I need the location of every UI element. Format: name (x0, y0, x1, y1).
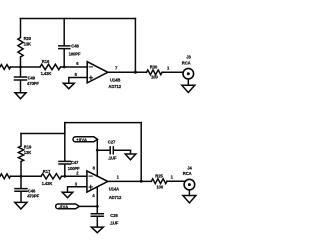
capacitor C48 label (69, 43, 81, 56)
wire R16 to op-amp inverting input (61, 66, 88, 68)
svg-text:100: 100 (156, 184, 163, 189)
op-amp U14A plus sign (89, 185, 92, 188)
node D junction dot (20, 175, 23, 178)
capacitor C46 (input to gnd) (15, 176, 27, 202)
svg-text:C49: C49 (28, 75, 36, 80)
resistor R17 body (41, 174, 62, 179)
wire non-inverting input (69, 78, 87, 84)
wire op-amp output (108, 71, 147, 73)
capacitor C27 label (108, 140, 117, 161)
resistor R30 label (150, 64, 159, 79)
node C junction dot (feedback to output) (134, 71, 137, 74)
op-amp U14A (87, 171, 108, 192)
connector J3 RCA jack (183, 68, 194, 79)
wire R17 to op-amp inverting input (62, 175, 87, 177)
resistor R19 label (24, 144, 32, 155)
capacitor C27 (supply decoupling) (97, 147, 130, 154)
node A junction dot (19, 66, 22, 69)
resistor R20 label (24, 36, 32, 47)
svg-text:100: 100 (151, 74, 158, 79)
wire input to node D (10, 175, 41, 177)
resistor R19 vertical body (18, 134, 23, 177)
svg-text:R30: R30 (150, 64, 158, 69)
wire non-inverting input (68, 187, 87, 192)
svg-text:R17: R17 (43, 169, 51, 174)
node B junction dot (C48 to inverting input) (63, 66, 66, 69)
resistor R17 label (42, 169, 53, 186)
svg-text:470PF: 470PF (27, 193, 39, 198)
ground (C49) (15, 93, 26, 99)
pin 1 label (J4) (171, 174, 174, 179)
op-amp U14B minus sign (89, 66, 92, 68)
node F junction dot (supply/C27) (96, 149, 99, 152)
svg-text:J4: J4 (187, 165, 192, 170)
svg-text:J3: J3 (186, 54, 191, 59)
resistor R20 vertical body (18, 19, 23, 68)
svg-text:U14A: U14A (109, 186, 119, 191)
wire feedback right vertical (140, 123, 142, 181)
wire feedback right vertical (134, 19, 136, 73)
node E junction dot (C47 to inverting input) (63, 175, 66, 178)
op-amp U14A label (109, 186, 122, 200)
wire J4 to ground (188, 190, 190, 196)
wire feedback top rail (21, 18, 136, 20)
wire feedback rail A (21, 133, 65, 135)
svg-text:C26: C26 (110, 213, 118, 218)
resistor R25 label (155, 173, 164, 189)
wire J3 to ground (187, 79, 189, 85)
ground (C27) (125, 150, 136, 160)
ground (C26) (91, 227, 103, 233)
wire R25 to J4 (167, 180, 185, 182)
pin 8 label (93, 165, 96, 170)
op-amp U14B label (108, 77, 121, 89)
pin 1 label (U14A output) (117, 175, 120, 180)
resistor R25 body (151, 179, 167, 184)
node H junction dot (supply/C26) (96, 205, 99, 208)
svg-text:470PF: 470PF (27, 81, 39, 86)
connector J3 label (182, 54, 192, 65)
pin 5 label (75, 72, 78, 77)
svg-text:R20: R20 (24, 36, 32, 41)
svg-text:+5VA: +5VA (76, 137, 87, 142)
ground (J3) (182, 85, 195, 92)
resistor R16 label (41, 59, 52, 76)
svg-text:C48: C48 (71, 43, 79, 48)
pin 7 label (115, 66, 118, 71)
wire -5VA to pin 4 (79, 187, 97, 214)
capacitor C48 (feedback) (59, 19, 70, 68)
wire op-amp output (108, 180, 152, 182)
ground (J4) (183, 196, 196, 203)
svg-text:RCA: RCA (183, 171, 192, 176)
pin 6 label (76, 61, 79, 66)
capacitor C26 label (110, 213, 119, 225)
svg-text:AD712: AD712 (109, 195, 122, 200)
ground (non-inverting input U14B) (63, 83, 74, 89)
wire input squiggle bottom-left (0, 174, 10, 179)
pin 2 label (76, 171, 79, 176)
wire R30 to J3 (162, 71, 183, 73)
ground (non-inverting input U14A) (62, 192, 73, 198)
wire feedback rail B (65, 123, 141, 134)
svg-text:.1UF: .1UF (110, 220, 119, 225)
svg-text:13K: 13K (24, 150, 31, 155)
svg-text:1.43K: 1.43K (41, 71, 52, 76)
resistor R16 body (40, 64, 61, 69)
power flag -5VA (56, 204, 80, 209)
svg-text:AD712: AD712 (108, 84, 121, 89)
op-amp U14B plus sign (89, 76, 92, 79)
svg-text:.1UF: .1UF (108, 156, 117, 161)
pin 1 label (J3) (167, 65, 170, 70)
wire input squiggle top-left (0, 65, 10, 70)
capacitor C49 (input to gnd) (15, 67, 27, 93)
svg-text:U14B: U14B (110, 77, 120, 82)
connector J4 RCA jack (184, 179, 195, 190)
pin 3 label (75, 181, 78, 186)
svg-text:R25: R25 (155, 173, 163, 178)
capacitor C47 label (68, 160, 80, 171)
svg-text:RCA: RCA (182, 61, 191, 66)
svg-text:-5VA: -5VA (59, 204, 69, 209)
svg-text:1.43K: 1.43K (42, 181, 53, 186)
power flag +5VA (73, 137, 98, 142)
node G junction dot (feedback to output) (140, 180, 143, 183)
capacitor C49 label (27, 75, 39, 86)
wire input to node A (10, 66, 40, 68)
svg-text:13K: 13K (24, 41, 31, 46)
ground (C46) (15, 202, 27, 209)
capacitor C26 (supply decoupling) (91, 214, 103, 227)
svg-text:C27: C27 (108, 140, 116, 145)
capacitor C46 label (27, 188, 39, 198)
svg-text:C47: C47 (71, 160, 79, 165)
svg-text:100PF: 100PF (69, 51, 81, 56)
capacitor C47 (feedback) (59, 123, 71, 177)
pin 4 label (92, 193, 95, 198)
wire +5VA to pin 8 (96, 140, 98, 176)
op-amp U14B (87, 62, 108, 83)
connector J4 label (183, 165, 193, 176)
svg-text:R16: R16 (42, 59, 50, 64)
svg-text:R19: R19 (24, 144, 32, 149)
resistor R30 body (147, 70, 163, 75)
op-amp U14A minus sign (89, 175, 92, 177)
